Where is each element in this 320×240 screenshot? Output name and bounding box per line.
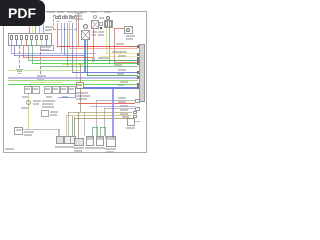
connector J2 divider [70,136,71,144]
wire ORA from F7 [76,30,77,77]
label frame pur [120,105,128,107]
pin F1 [55,16,58,19]
connector C2 strip [139,44,145,102]
relay K2 [91,20,99,29]
label bundle b [120,113,128,115]
label K2 below b [92,34,96,36]
pin C2 y46 [137,45,139,48]
wire BRN drop x78 [78,112,79,138]
wire GRN from K1 [87,40,88,76]
wire GRN bus y60a [28,60,88,61]
solenoid Y2 [96,136,104,146]
wire GRN bus y60b [88,60,138,61]
wire shield dashed [19,46,20,68]
wire GRN U2 a [100,127,101,138]
label C137 box [40,45,54,51]
wire GRY C102 stub [135,121,140,122]
label stack b [98,34,104,36]
label K2 below a [92,31,97,33]
wire VIO long drop [112,89,114,138]
wire PUR bus y53 [11,53,96,54]
stub RED pin4 [26,40,27,46]
label sensor B6 [69,88,74,90]
pin C2 y61 [137,60,139,63]
pin C2 y58 [137,57,139,60]
legend line1 [75,12,83,14]
label M4 b [74,150,82,152]
pin 3 of C1 [20,35,23,40]
fuse pair circle [106,16,110,20]
label above C1 line2 [45,29,52,31]
label splice S1b [37,78,44,80]
page border [3,11,147,153]
label pin y55 [118,55,126,57]
pin box C2 lower b [135,107,140,111]
solenoid symbol circle [83,24,88,29]
wire RED feeder [78,13,79,46]
label pin y51 [120,51,127,53]
label bundle c [122,116,129,118]
pin F6 [72,16,75,19]
fuse pair FB2 sub b [109,21,112,27]
wire RED bus y57 [23,57,93,58]
wire RED from F1 [57,23,58,46]
wire TBLU link y97 [58,97,76,98]
pin 2 of C1 [15,35,18,40]
label hot a [47,11,55,13]
label Y3 [105,148,116,150]
wire BLU from F3 [64,23,65,55]
wire RED bus y46 [57,46,138,47]
note line a [42,100,55,102]
pin box bundle b [133,115,137,118]
label J2 [64,146,74,148]
ground G1 bar3 [18,73,21,74]
splice symbol on yellow [26,100,31,105]
wire GRN C1 drop [28,46,29,60]
wire GRY long feed [84,112,85,136]
label under B5 [62,96,68,98]
coil T1 circle [126,28,130,32]
ground G1 bar2 [17,71,22,72]
label splice right b [33,103,39,105]
label brown box [77,84,82,86]
wire GRN bus y63 [32,63,138,64]
wire LAV bus y77 [8,77,138,79]
label M3 b [50,114,57,116]
wire RED coil feed [114,28,124,29]
pin F3 [62,16,65,19]
pin F5 [69,16,72,19]
solenoid Y3 hatch [107,137,115,140]
wire GRN sensor drop [30,84,31,86]
sensor B4 [52,86,60,94]
component M2 [14,127,23,135]
wire RED bus y615 [114,62,138,63]
stub PUR pin1 [11,40,12,46]
label coil a [126,35,135,37]
label Y2 [95,147,105,149]
solenoid Y1 hatch [87,137,93,140]
stub GRN pin6 [36,40,37,46]
wire RED to C1 top [29,25,30,33]
stub YEL pin7 [41,40,42,46]
label on green y60 [98,57,109,59]
wire GRN U1 b [97,127,98,138]
pin 4 of C1 [25,35,28,40]
wire shield dashed2 [40,52,41,74]
pin C2 y54 [137,53,139,56]
label C102 [126,127,135,129]
label pin y73 [117,73,124,75]
component stack box [99,22,103,26]
wire RED from F5 [69,23,70,48]
component stack tick [100,27,102,29]
label on yellow [112,51,121,53]
note line c [42,106,54,108]
wire PUR from F2 [61,23,62,53]
wire TBLU bus y87 [77,87,138,89]
sensor B6 [68,86,76,94]
label M2 below b [24,134,32,136]
solenoid Y2 hatch [97,137,103,140]
label sensor B3 [45,88,50,90]
sensor B1 [24,86,32,94]
label above C1 line1 [45,26,53,28]
label above K2 [91,11,97,13]
component M4 [74,138,84,146]
stub GRN pin5 [31,40,32,46]
wire LGRN bus y70 [8,70,80,71]
pin 8 of C1 [45,35,48,40]
pin C2 y87 [137,86,139,89]
wire BRN drop x74 [74,117,75,136]
wire GRY frame h1 [96,100,135,101]
label Y3 b [106,151,114,153]
pin 7 of C1 [40,35,43,40]
fuse F2 element [68,21,72,22]
wire PUR to C1 top [39,25,40,33]
wire PUR bus y106 [90,106,135,107]
label pin y69 [118,69,126,71]
label M3 a [50,111,58,113]
wire BLU C1 drop [14,46,15,56]
pin C2 y63 [137,62,139,65]
coil T1 [124,26,133,34]
label footer [5,148,14,150]
label Y1 [85,147,95,149]
label C137 text [41,46,51,48]
connector C1 PCM block [8,33,52,46]
wire YEL bus y55b [100,56,138,57]
PDF badge text [0,0,44,26]
fuse pair FB2 [104,20,113,28]
label splice right a [33,100,41,102]
solenoid Y3 [106,136,116,147]
solenoid Y1 [86,136,94,146]
wire TBLU sensor drop [75,88,76,98]
pin F4 [65,16,68,19]
pin C2 y72 [137,71,139,74]
wire RED coil drop [114,28,115,62]
wire RED from K2 [93,28,94,58]
wire GRY frame v2 [104,108,105,136]
pin F2 [58,16,61,19]
label under B1 [22,96,28,98]
wire YEL long drop [28,94,29,129]
sensor B5 [60,86,68,94]
note line b [42,103,53,105]
wire YEL link y64 [62,64,86,65]
fuse block FB1 [53,15,77,30]
wire GRN U1 top [92,127,98,128]
label C137 text2 [41,49,49,51]
sensor B3 [44,86,52,94]
wire GRN bus y75 [87,75,138,76]
label sensor B4 [53,88,58,90]
label J1 [55,146,64,148]
pin 1 of C1 [10,35,13,40]
label M2 inner [16,129,21,131]
PDF badge [0,0,45,26]
label sensor B2 [33,88,38,90]
label pin y81 [120,81,128,83]
sensor B2 [32,86,40,94]
junction mark red [92,58,95,62]
label above stack [99,17,104,19]
label bundle a [120,109,128,111]
connector J1 [56,136,64,144]
legend line3 [75,18,83,20]
wire BLU to C1 top [43,25,44,33]
fuse pair FB2 sub a [105,21,108,27]
stub BLU pin8 [46,40,47,46]
stub GRY pin3 [21,40,22,46]
label y64 right [114,64,122,66]
label frame red [118,101,126,103]
legend line2 [75,15,82,17]
label frame h1 [118,97,126,99]
circle above K2 [93,15,97,19]
wire BLU from K1 [84,40,86,72]
wire BRN bus y117 [74,118,132,119]
stub BLU pin2 [16,40,17,46]
relay K1 [81,30,90,40]
pin box C2 lower a [135,99,140,103]
label coil b [126,38,133,40]
pin C2 y84 [137,83,139,86]
wire RED bus y103 [78,103,135,104]
wire BRN top feed [80,64,81,112]
wire GRY link y129 [23,129,59,130]
wire KHA bus y115 [66,115,132,116]
wire GRY J1 stem [58,129,59,136]
wire OLV drop x68 [68,112,69,136]
label M4 a [74,147,84,149]
wire GRN drop x72 [72,116,73,136]
wire GRN to C1 top [35,25,36,33]
fuse F1 element [56,21,60,22]
label under B3 [46,96,52,98]
wire OLV bus y112 [68,112,132,113]
label above FB2 [104,11,111,13]
wire GRN U2 b [105,127,106,138]
wire GRN bus y66 [40,66,138,67]
label sensor B5 [61,88,66,90]
label M2 below a [24,131,34,133]
note2 line b [76,95,90,97]
wire RED bus y48 [69,48,138,49]
connector C102 [127,118,135,126]
wire GRN C1 drop b [32,46,33,63]
wire YEL from FB2 [106,28,107,54]
label stack a [98,31,104,33]
component M3 [41,110,49,117]
pin box bundle a [133,111,137,114]
note2 line a [76,92,88,94]
wire GRY drop x59 [59,129,60,136]
label hot b [57,11,64,13]
wire BGRN bus y84 [8,84,138,85]
wire BLU bus y55 [14,55,85,56]
wire LGRN bus y80 [8,80,138,81]
wire GRY frame v1 [96,100,97,136]
wire RED C1 drop [23,46,24,58]
label pin y84 [118,84,124,86]
wire GRY frame h2 [104,108,135,109]
label splice S202 [21,107,28,109]
label hot c [67,11,75,13]
pin 5 of C1 [30,35,33,40]
wire GRN U2 top [100,127,106,128]
component on brown wire [76,82,84,89]
wire YEL bus y53 [106,53,138,54]
wire GRN U1 a [92,127,93,138]
wire GRN from FB2 [109,28,110,63]
pin C2 y77 [137,76,139,79]
label sensor B1 [25,88,30,90]
note2 line c [76,98,87,100]
wire YEL to C1 top [32,25,33,33]
label pin y43 [116,43,124,45]
wire GRN from F4 [67,23,68,66]
connector J2 [64,136,76,144]
wire YEL link y82 [30,82,62,83]
wire PUR C1 drop [11,46,12,54]
ground G1 bar1 [16,69,23,70]
label splice S1 [37,75,46,77]
wire KHA drop x66 [66,115,67,136]
pin 6 of C1 [35,35,38,40]
wire BLU bus y72 [72,72,138,73]
label above K1 [80,11,87,13]
wire BLU from F6 [72,23,73,72]
